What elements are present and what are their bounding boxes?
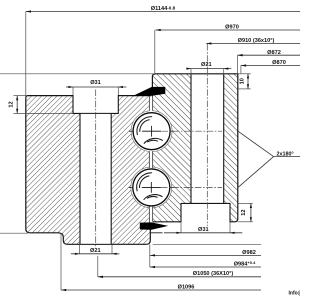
svg-text:Ø1096: Ø1096 [178,284,195,290]
svg-text:Info@b: Info@b [289,291,301,297]
svg-text:Ø910 (36x10°): Ø910 (36x10°) [238,38,275,44]
svg-text:12: 12 [241,209,247,215]
svg-text:12: 12 [9,101,15,107]
svg-text:Ø21: Ø21 [90,248,101,254]
svg-text:Ø1050 (36X10°): Ø1050 (36X10°) [193,271,234,277]
svg-text:Ø21: Ø21 [201,62,212,68]
svg-text:Ø870: Ø870 [272,60,286,66]
svg-text:Ø970: Ø970 [225,24,239,30]
svg-text:Ø872: Ø872 [267,50,281,56]
svg-text:Ø31: Ø31 [198,227,209,233]
svg-text:2x180°: 2x180° [277,151,294,157]
svg-text:Ø982: Ø982 [242,250,256,256]
svg-text:10: 10 [239,78,245,84]
svg-text:Ø31: Ø31 [90,80,101,86]
